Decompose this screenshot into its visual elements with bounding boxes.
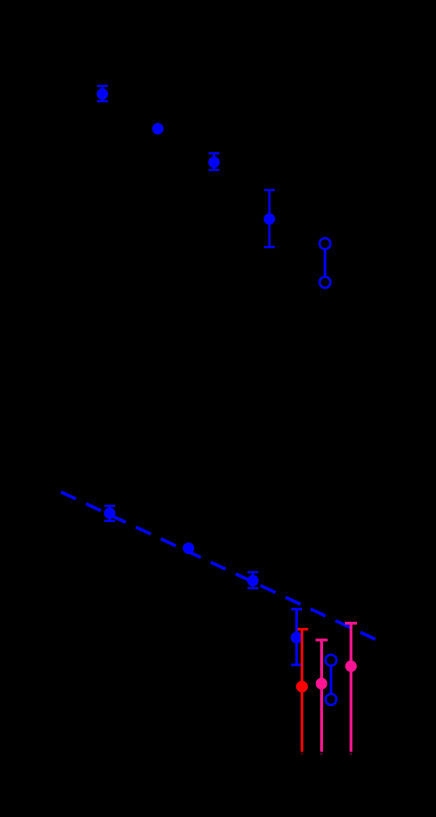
errorbar point B4 bottom panel	[291, 609, 302, 665]
point B2 bottom panel	[184, 544, 193, 553]
errorbar point B1 bottom panel	[104, 506, 115, 521]
open-circle pair (bottom panel) connected by line	[326, 655, 337, 705]
red clipped arrow remnant	[301, 752, 304, 755]
deep-pink upper-limit point 2	[345, 623, 357, 752]
open-circle pair (top panel) connected by line	[320, 238, 331, 288]
pink clipped arrow remnant 2	[350, 753, 353, 756]
dashed blue fit line (bottom panel)	[61, 492, 376, 639]
red upper-limit point	[297, 629, 308, 752]
errorbar point P3 top panel	[209, 153, 220, 170]
pink clipped arrow remnant 1	[320, 753, 323, 756]
deep-pink upper-limit point 1	[316, 640, 328, 752]
errorbar point B3 bottom panel	[248, 572, 259, 588]
point P2 top panel	[153, 124, 162, 133]
errorbar point P4 top panel	[264, 190, 275, 247]
errorbar point P1 top panel	[97, 86, 108, 101]
